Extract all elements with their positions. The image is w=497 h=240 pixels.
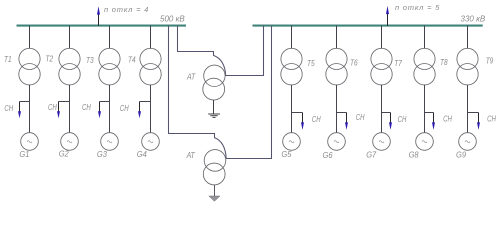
busbar 330 kV: [253, 25, 483, 27]
wire tap Т6: [336, 26, 338, 49]
svg-text:СН: СН: [356, 113, 365, 122]
svg-text:G6: G6: [323, 150, 333, 160]
ground arrow AT2: [209, 185, 220, 201]
svg-text:G3: G3: [97, 149, 107, 159]
svg-text:СН: СН: [4, 104, 13, 113]
wire Т5 to G5: [291, 85, 293, 133]
arrow p otkl left: [97, 6, 100, 26]
svg-text:СН: СН: [443, 115, 452, 124]
generator G4: [142, 133, 160, 151]
svg-text:G2: G2: [59, 149, 69, 159]
generator G6: [328, 133, 346, 151]
transformer Т5: [281, 48, 302, 85]
transformer Т1: [19, 48, 40, 85]
ground AT1: [208, 100, 220, 117]
wire CH branch 7: [382, 112, 391, 114]
wire CH branch 1: [20, 101, 30, 103]
transformer Т6: [326, 48, 347, 85]
arrow CH7: [389, 113, 392, 130]
wire CH branch 8: [425, 112, 434, 114]
wire Т8 to G8: [424, 85, 426, 133]
svg-text:Т3: Т3: [86, 56, 94, 65]
svg-text:330 кВ: 330 кВ: [461, 15, 486, 24]
generator G3: [101, 133, 119, 151]
svg-text:СН: СН: [48, 103, 57, 112]
svg-text:АТ: АТ: [186, 72, 196, 81]
svg-text:G8: G8: [409, 150, 419, 160]
wire tap Т2: [69, 26, 71, 49]
transformer Т7: [371, 48, 392, 85]
wire Т3 to G3: [109, 85, 111, 133]
wire tap Т1: [29, 26, 31, 49]
svg-text:500 кВ: 500 кВ: [160, 14, 185, 23]
svg-text:G4: G4: [137, 149, 147, 159]
wire tap Т3: [109, 26, 111, 49]
arrow CH9: [477, 113, 480, 130]
wire CH branch 9: [468, 112, 479, 114]
svg-text:СН: СН: [82, 103, 91, 112]
wire Т9 to G9: [467, 85, 469, 133]
wire CH branch 6: [337, 112, 347, 114]
arrow CH2: [57, 102, 60, 119]
wire tap Т4: [150, 26, 152, 49]
svg-text:Т5: Т5: [307, 59, 315, 68]
svg-text:Т9: Т9: [486, 56, 494, 65]
transformer Т8: [414, 48, 435, 85]
svg-text:СН: СН: [398, 115, 407, 124]
wire CH branch 5: [292, 112, 303, 114]
arrow CH8: [432, 113, 435, 130]
wire Т7 to G7: [381, 85, 383, 133]
wire Т6 to G6: [336, 85, 338, 133]
generator G5: [283, 133, 301, 151]
svg-text:СН: СН: [312, 115, 321, 124]
svg-text:п откл = 4: п откл = 4: [104, 5, 149, 14]
arrow CH5: [301, 113, 304, 130]
generator G2: [61, 133, 79, 151]
svg-text:G9: G9: [456, 150, 466, 160]
transformer Т3: [99, 48, 120, 85]
transformer Т9: [457, 48, 478, 85]
svg-text:Т7: Т7: [394, 59, 402, 68]
svg-text:СН: СН: [120, 104, 129, 113]
wire AT2 feeder 500kV bus to 330kV bus: [169, 26, 272, 159]
arrow CH1: [18, 102, 21, 119]
busbar 500 kV: [17, 25, 187, 27]
svg-text:Т8: Т8: [440, 58, 448, 67]
arrow p otkl right: [386, 6, 389, 26]
arrow CH6: [345, 113, 348, 130]
arrow CH3: [98, 102, 101, 119]
svg-text:п откл = 5: п откл = 5: [395, 3, 440, 12]
wire Т1 to G1: [29, 85, 31, 133]
generator G8: [416, 133, 434, 151]
wire tap Т5: [291, 26, 293, 49]
wire tap Т9: [467, 26, 469, 49]
svg-text:Т4: Т4: [128, 56, 136, 65]
svg-text:АТ: АТ: [186, 151, 196, 160]
wire tap Т7: [381, 26, 383, 49]
svg-text:G1: G1: [19, 149, 29, 159]
wire CH branch 3: [100, 101, 110, 103]
svg-text:СН: СН: [487, 115, 496, 124]
wire tap Т8: [424, 26, 426, 49]
transformer Т2: [59, 48, 80, 85]
wire Т4 to G4: [150, 85, 152, 133]
generator G9: [459, 133, 477, 151]
generator G7: [373, 133, 391, 151]
wire AT1 feeder 500kV bus to 330kV bus: [178, 26, 264, 76]
generator G1: [21, 133, 39, 151]
svg-text:Т2: Т2: [46, 55, 54, 64]
svg-text:Т6: Т6: [350, 59, 358, 68]
autotransformer AT1: [203, 65, 225, 100]
svg-text:G7: G7: [366, 150, 376, 160]
svg-text:G5: G5: [281, 149, 291, 159]
wire Т2 to G2: [69, 85, 71, 133]
autotransformer AT2: [203, 150, 226, 185]
wire CH branch 4: [140, 101, 151, 103]
transformer Т4: [140, 48, 161, 85]
wire CH branch 2: [59, 101, 70, 103]
arrow CH4: [138, 102, 141, 119]
svg-text:Т1: Т1: [4, 55, 12, 64]
